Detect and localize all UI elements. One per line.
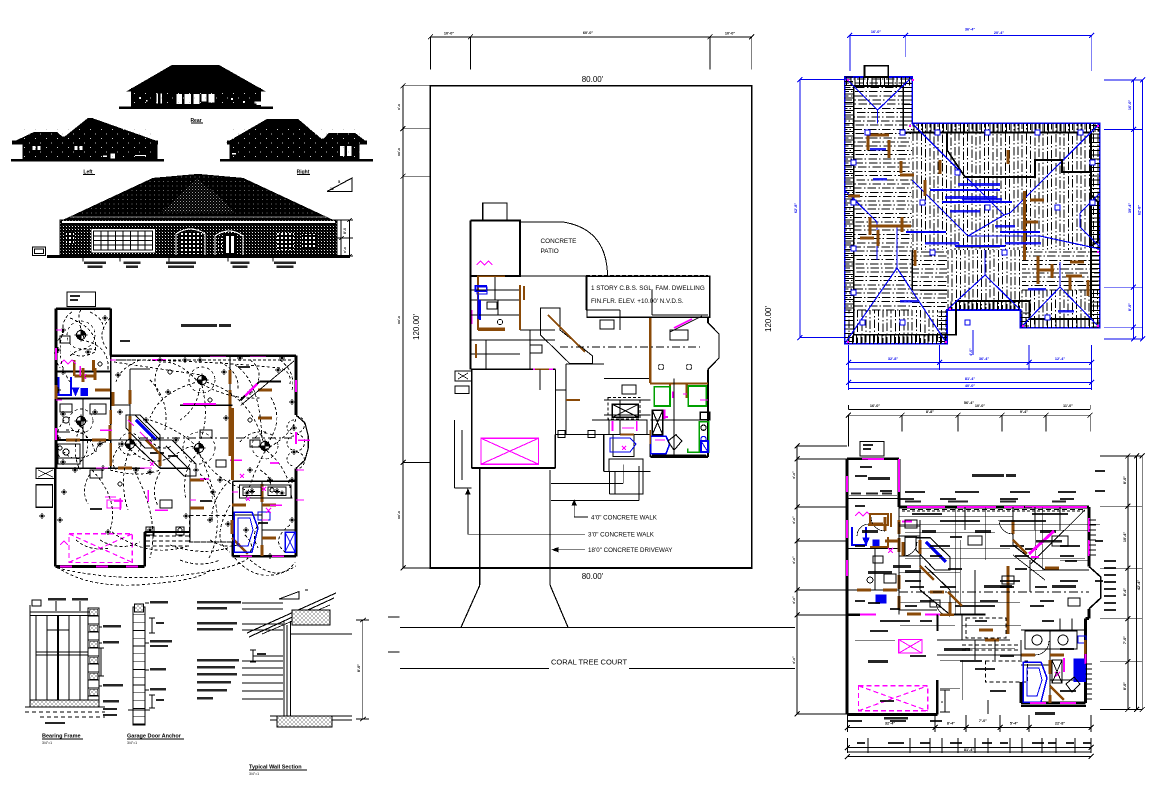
outlet symbol [223, 415, 229, 421]
roof plan bay window black walls [1090, 194, 1098, 247]
svg-text:18’0" CONCRETE DRIVEWAY: 18’0" CONCRETE DRIVEWAY [588, 547, 672, 554]
floor plan more interior detail [873, 507, 1089, 660]
svg-text:81'-4": 81'-4" [965, 377, 976, 381]
floor plan wing laundry detail [855, 512, 912, 583]
outlet symbol [92, 409, 98, 415]
svg-text:12: 12 [330, 187, 334, 191]
svg-text:8'-0": 8'-0" [1123, 682, 1127, 690]
outlet symbol [61, 489, 67, 495]
electrical legend box [67, 292, 96, 307]
svg-text:39'-4": 39'-4" [1128, 203, 1132, 214]
electrical double vanity right [240, 485, 292, 501]
outlet symbol [289, 517, 295, 523]
svg-text:PATIO: PATIO [541, 248, 559, 255]
svg-text:8'-0": 8'-0" [1128, 303, 1132, 311]
outlet symbol [237, 355, 243, 361]
floor plan garage door label [884, 717, 908, 719]
svg-text:3/4"=1: 3/4"=1 [42, 741, 52, 745]
electrical bottom-left bath detail [58, 442, 106, 464]
svg-text:16'-0": 16'-0" [870, 404, 881, 408]
site porch columns [555, 431, 603, 438]
site house wing outline [471, 221, 521, 277]
svg-text:3’0" CONCRETE WALK: 3’0" CONCRETE WALK [588, 532, 655, 539]
electrical more arcs and marks [63, 312, 293, 549]
floor plan dining corner diagonal [1029, 510, 1085, 564]
bearing frame detail [25, 598, 123, 724]
roof joist hatching zones [844, 79, 1110, 344]
ceiling fan symbol [74, 328, 87, 341]
outlet symbol [249, 488, 255, 494]
svg-text:10'-4": 10'-4" [1123, 532, 1127, 543]
site house chimney box [483, 203, 507, 221]
outlet symbol [243, 527, 249, 533]
front elevation entry arch and door [215, 231, 243, 256]
svg-text:36'-4": 36'-4" [979, 357, 990, 361]
svg-text:16'-0": 16'-0" [1128, 100, 1132, 111]
ceiling fan symbol [195, 373, 208, 386]
kitchen diagonal counters [126, 415, 160, 448]
outlet symbol [115, 372, 121, 378]
outlet symbol [183, 513, 189, 519]
svg-text:40'-0": 40'-0" [965, 384, 976, 388]
site house extra brown bits [476, 286, 650, 444]
svg-text:CONCRETE: CONCRETE [541, 238, 577, 245]
right side elevation silhouette [227, 120, 367, 160]
electrical plan title text [181, 324, 217, 327]
electrical magenta devices and switches [60, 356, 310, 545]
electrical blue bath fixtures bottom right [234, 512, 295, 552]
front elevation ground line [47, 255, 350, 258]
ceiling fan symbol [123, 437, 136, 450]
electrical small circles [98, 362, 102, 366]
electrical center dashdot line [140, 437, 296, 439]
outlet symbol [291, 449, 297, 455]
svg-text:16'-0": 16'-0" [871, 30, 882, 34]
ceiling fan symbol [74, 414, 87, 427]
outlet symbol [267, 477, 273, 483]
floor plan wing dim row [849, 493, 897, 496]
typical wall section drawing [247, 593, 400, 727]
svg-text:8'-4": 8'-4" [947, 722, 955, 726]
typical wall section notes column [197, 601, 283, 700]
walk label leaders [466, 490, 672, 554]
rear elevation ground line [119, 107, 273, 109]
front elevation wall [60, 220, 337, 256]
electrical extra brown [56, 368, 276, 538]
outlet symbol [143, 417, 149, 423]
outlet symbol [280, 491, 285, 496]
outlet symbol [55, 387, 61, 393]
site house bedroom walls brown [478, 276, 520, 330]
roof interior entry step walls black [912, 132, 1091, 290]
site dining corner diagonal [670, 316, 702, 332]
electrical hall brown wall [231, 408, 234, 480]
typical wall section scale triangle [279, 592, 299, 600]
outlet symbol [55, 435, 61, 441]
svg-text:10'-0": 10'-0" [975, 404, 986, 408]
svg-text:x'-x": x'-x" [792, 596, 796, 604]
outlet symbol [60, 327, 66, 333]
floor plan room label smudges [868, 477, 890, 480]
electrical brown door frames [94, 368, 97, 380]
outlet symbol [147, 469, 153, 475]
svg-text:11'-0": 11'-0" [1063, 404, 1073, 408]
outlet symbol [147, 527, 153, 533]
site house wing extra [475, 261, 520, 330]
left elevation ground line [11, 159, 164, 161]
floor plan interior dim lines thin [899, 507, 1089, 614]
svg-text:3/4"=1: 3/4"=1 [249, 772, 259, 776]
roof plan perimeter hatch band [845, 77, 1100, 344]
outlet symbol [274, 488, 280, 494]
floor plan extra interior thin lines [855, 507, 1100, 700]
floor plan kitchen diagonals [916, 538, 950, 570]
svg-text:56'-4": 56'-4" [964, 401, 975, 405]
electrical tiny text smudges [150, 452, 164, 454]
electrical interior walls [56, 356, 296, 557]
svg-text:7'-0": 7'-0" [1123, 636, 1127, 644]
left elevation stipple overlay [20, 128, 152, 158]
front elevation callout labels [83, 257, 106, 268]
roof right dimension lines blue [1104, 78, 1145, 342]
floor plan right bay labels [1104, 560, 1116, 611]
street centerline and curb [400, 627, 795, 668]
electrical more magenta ticks [56, 309, 296, 567]
floor plan bottom dimension rows [845, 715, 1094, 759]
outlet symbol [105, 529, 111, 535]
floor plan sheet title smudge [972, 474, 1004, 477]
outlet symbol [85, 349, 91, 355]
electrical more interior bits [60, 336, 271, 564]
site house furniture bits [530, 320, 688, 420]
svg-text:4'-0": 4'-0" [969, 348, 973, 356]
floor plan small vertical dim center-bottom [940, 690, 988, 714]
svg-text:62'-8": 62'-8" [794, 203, 798, 214]
floor plan more smudges [905, 501, 921, 503]
roof plan extra brown beams [860, 150, 1084, 278]
driveway and walks to street [455, 420, 639, 627]
outlet symbol [267, 553, 273, 559]
roof blue text labels [870, 148, 1074, 313]
outlet symbol [117, 409, 123, 415]
outlet symbol [210, 489, 216, 495]
svg-text:x'-x: x'-x [343, 247, 347, 253]
roof hip lines main [845, 123, 1100, 343]
svg-text:8'-0: 8'-0 [343, 228, 347, 234]
electrical left utility boxes [36, 468, 55, 507]
svg-text:60'-0": 60'-0" [583, 31, 594, 35]
roof brown beams [848, 135, 1088, 296]
floor plan bath cluster detail [1021, 658, 1086, 706]
outlet symbol [97, 441, 103, 447]
roof hip lines wing [845, 77, 913, 123]
floor plan double vanity [1025, 631, 1077, 649]
floor plan interior walls [847, 499, 1085, 704]
roof misc blue center labels [945, 183, 1000, 199]
svg-text:x'-x": x'-x" [792, 556, 796, 564]
outlet symbol [247, 467, 253, 473]
floor plan top wall dashed interior [902, 509, 1086, 511]
front elevation left arch window [176, 229, 205, 256]
site plan top dimension line [428, 31, 754, 69]
electrical porch dashed bands [146, 536, 189, 546]
svg-text:10'-0": 10'-0" [444, 32, 455, 36]
svg-text:8'-8": 8'-8" [926, 410, 934, 414]
roof vertical dashed line bottom center [972, 330, 974, 355]
svg-text:x: x [940, 701, 944, 703]
svg-text:3/4"=1: 3/4"=1 [127, 741, 137, 745]
roof pitch scale triangle [327, 178, 352, 192]
roof chimney box [865, 66, 889, 77]
outlet symbol [60, 459, 66, 465]
outlet symbol [182, 357, 188, 363]
svg-text:xx'-x: xx'-x [397, 511, 401, 519]
outlet symbol [279, 355, 285, 361]
svg-text:12'-4": 12'-4" [1055, 357, 1066, 361]
roof left dimension line blue [794, 77, 845, 340]
svg-text:FIN.FLR. ELEV. +10.00' N.V.D.S: FIN.FLR. ELEV. +10.00' N.V.D.S. [591, 298, 684, 305]
roof plan inner black wall outline [854, 86, 1091, 335]
site house extra fixtures [610, 364, 708, 452]
svg-text:xx'-x: xx'-x [397, 148, 401, 156]
floor plan extra smudges [905, 491, 925, 493]
electrical blue fixtures washer dryer [59, 377, 88, 395]
outlet symbol [221, 369, 227, 375]
electrical pantry diagonal [160, 440, 196, 476]
svg-text:7'-0": 7'-0" [979, 719, 987, 723]
floor plan brown door frames [884, 517, 887, 531]
outlet symbol [57, 517, 63, 523]
outlet symbol [275, 367, 281, 373]
svg-text:120.00': 120.00' [764, 306, 773, 332]
roof plan blue outline [845, 77, 1100, 344]
floor plan window tick rows right [1085, 520, 1096, 699]
site house main body walls [586, 276, 719, 494]
outlet symbol [289, 477, 295, 483]
outlet symbol [100, 465, 106, 471]
svg-text:62'-8": 62'-8" [1138, 205, 1142, 216]
left side elevation silhouette [12, 119, 158, 160]
floor plan more smudges 2 [910, 586, 924, 588]
outlet symbol [55, 347, 61, 353]
floor plan right dimension columns [1100, 453, 1145, 712]
svg-text:x'-x": x'-x" [792, 656, 796, 664]
front elevation right windows [277, 233, 294, 250]
outlet symbol [102, 315, 108, 321]
outlet symbol [173, 437, 179, 443]
right elevation ground line [220, 159, 373, 161]
svg-text:5'-4": 5'-4" [1010, 722, 1018, 726]
front elevation right dimension lines [336, 218, 353, 258]
rear elevation silhouette [128, 66, 264, 108]
svg-text:36'-4": 36'-4" [965, 28, 976, 32]
floor plan door swing arcs [857, 517, 1049, 655]
outlet symbol [217, 477, 223, 483]
front elevation ac unit [33, 247, 46, 256]
site house extra magenta bits [472, 310, 708, 450]
right elevation stipple overlay [232, 128, 362, 158]
dwelling info box [587, 276, 710, 317]
site house patio edge and arc [520, 221, 608, 277]
svg-text:4’0" CONCRETE WALK: 4’0" CONCRETE WALK [591, 514, 658, 521]
garage door anchor detail [128, 601, 172, 725]
site house extra interior detail [471, 276, 709, 457]
roof magenta corner dots [909, 125, 911, 127]
site house left utility boxes [455, 371, 472, 393]
electrical thicker accents [56, 309, 296, 557]
site garage X box [481, 438, 539, 464]
svg-text:80.00': 80.00' [582, 572, 604, 581]
electrical extra magenta [56, 330, 304, 520]
svg-text:8'-0": 8'-0" [357, 664, 361, 672]
electrical dining nook diagonal wall [180, 361, 294, 406]
outlet symbol [119, 441, 125, 447]
svg-text:x'-x": x'-x" [792, 471, 796, 479]
site house center dashdot and walls [471, 290, 709, 435]
electrical plan outer walls [55, 309, 308, 567]
svg-text:x'-x: x'-x [397, 104, 401, 110]
svg-text:10'-0": 10'-0" [725, 32, 736, 36]
floor plan section dashdot line [899, 591, 1089, 593]
site house porch steps [608, 397, 647, 494]
floor plan blue fixtures [852, 527, 1086, 702]
electrical fan dashed circles [67, 321, 95, 349]
svg-text:x'-x": x'-x" [792, 516, 796, 524]
floor plan magenta garage X and counters [847, 459, 1089, 711]
floor plan extra brown [899, 540, 1085, 674]
svg-text:32'-8": 32'-8" [888, 357, 899, 361]
electrical brown wall pieces [74, 360, 262, 554]
electrical bottom dashed loops [57, 558, 296, 585]
outlet symbol [225, 521, 231, 527]
floor plan dimension text smudges inside [900, 498, 914, 500]
svg-text:22'-8": 22'-8" [1055, 722, 1066, 726]
outlet symbol [197, 357, 203, 363]
outlet symbol [247, 389, 253, 395]
floor plan dashed porch lines [962, 618, 1021, 650]
electrical wiring dashed arcs [57, 318, 295, 578]
electrical wing bath fixtures [56, 404, 106, 432]
outlet symbol [193, 467, 199, 473]
site house kitchen island diagonal [541, 308, 593, 364]
svg-text:81'-4": 81'-4" [964, 748, 975, 752]
floor plan window dashes magenta [847, 459, 1089, 576]
outlet symbol [60, 411, 66, 417]
electrical magenta garage X box [69, 534, 132, 563]
outlet symbol [157, 357, 163, 363]
outlet symbol [39, 513, 45, 519]
rear elevation stipple overlay [134, 92, 258, 106]
svg-text:80.00': 80.00' [582, 75, 604, 84]
front elevation garage door [92, 230, 154, 252]
svg-text:CORAL TREE COURT: CORAL TREE COURT [551, 658, 628, 667]
floor plan legend box [860, 442, 884, 457]
front elevation roof [64, 175, 332, 221]
outlet symbol [72, 467, 78, 473]
roof bottom dimension rows blue [846, 345, 1094, 390]
roof plan extra blue dashes [906, 190, 1040, 246]
roof blue strap markers [851, 130, 1095, 325]
svg-text:8'-0": 8'-0" [1123, 476, 1127, 484]
site plan left dimension line [397, 83, 430, 570]
site house interior walls [471, 276, 651, 379]
svg-text:xx'-x: xx'-x [397, 316, 401, 324]
outlet symbol [207, 517, 213, 523]
site house bath cluster [650, 360, 709, 456]
outlet symbol [60, 369, 66, 375]
outlet symbol [133, 467, 139, 473]
electrical extra wiring arcs [55, 308, 297, 552]
outlet symbol [289, 399, 295, 405]
ceiling fan symbol [192, 441, 205, 454]
outlet symbol [245, 491, 250, 496]
site plan lot boundary [430, 86, 751, 568]
roof top dimension line blue [847, 28, 1094, 71]
svg-text:8'-4": 8'-4" [1123, 588, 1127, 596]
svg-text:1 STORY C.B.S. SGL. FAM. DWELL: 1 STORY C.B.S. SGL. FAM. DWELLING [591, 285, 705, 292]
ceiling fan symbol [258, 439, 271, 452]
svg-text:120.00': 120.00' [412, 314, 421, 340]
floor plan hallway and closet lines [899, 507, 1072, 660]
svg-text:42'-4": 42'-4" [1137, 580, 1141, 591]
floor plan left dimension column [792, 444, 847, 717]
site house laundry blue [477, 287, 553, 369]
floor plan top dimension rows [846, 401, 1093, 447]
site house garage block [472, 369, 604, 468]
outlet symbol [165, 389, 171, 395]
svg-text:20'-4": 20'-4" [994, 31, 1005, 35]
floor plan outer walls [847, 459, 1101, 715]
outlet symbol [291, 425, 297, 431]
svg-text:9'-4": 9'-4" [1020, 410, 1028, 414]
